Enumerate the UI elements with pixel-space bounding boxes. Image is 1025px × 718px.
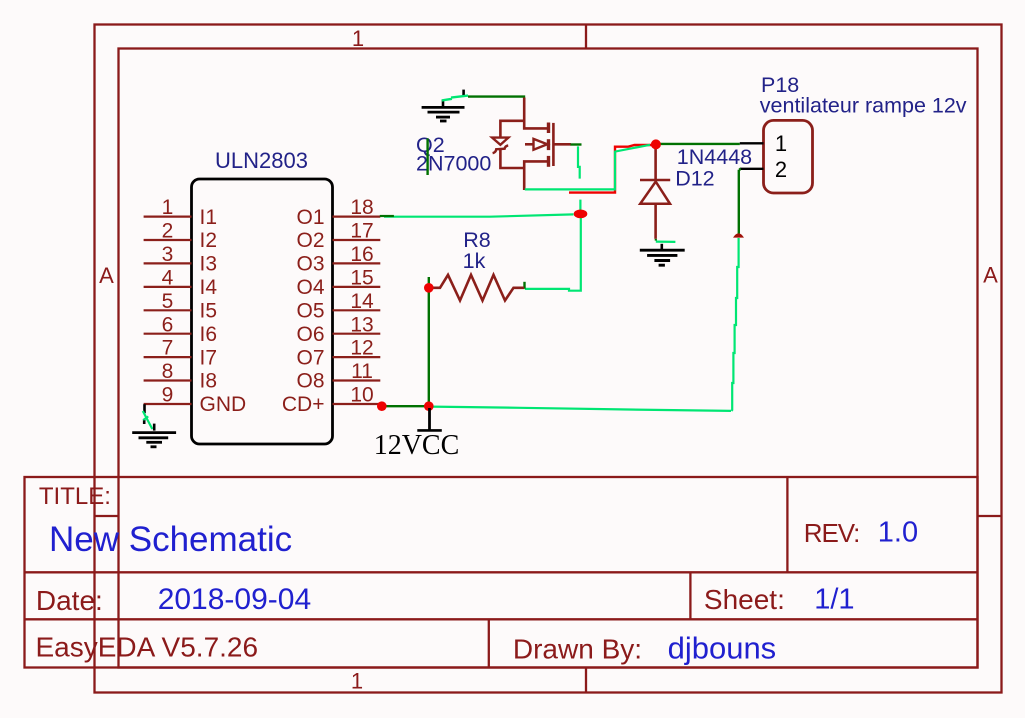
svg-text:Sheet:: Sheet: bbox=[704, 584, 785, 615]
svg-text:djbouns: djbouns bbox=[668, 631, 777, 666]
svg-text:17: 17 bbox=[350, 220, 373, 243]
svg-text:1/1: 1/1 bbox=[814, 584, 854, 616]
svg-text:I8: I8 bbox=[200, 370, 218, 393]
pin 10 (CD+) of U1 bbox=[282, 384, 380, 417]
wire P18 pin2 down bbox=[739, 169, 741, 233]
wire gate dangle bbox=[578, 146, 580, 178]
svg-text:1N4448: 1N4448 bbox=[677, 145, 752, 169]
svg-text:GND: GND bbox=[200, 393, 247, 416]
power flag 12VCC bbox=[374, 408, 460, 461]
ground GND1 (top, gate) bbox=[422, 90, 465, 121]
pin 13 (O6) of U1 bbox=[296, 313, 380, 346]
net marker dome bbox=[733, 233, 744, 237]
title block REV separator bbox=[786, 477, 788, 572]
svg-text:18: 18 bbox=[350, 196, 373, 219]
resistor R8 bbox=[429, 275, 524, 301]
svg-text:D12: D12 bbox=[675, 167, 714, 191]
pin 17 (O2) of U1 bbox=[296, 220, 380, 253]
pin 3 (I3) of U1 bbox=[144, 243, 217, 276]
svg-text:New Schematic: New Schematic bbox=[49, 520, 292, 559]
svg-text:O6: O6 bbox=[296, 323, 324, 346]
svg-text:CD+: CD+ bbox=[282, 393, 325, 416]
svg-text:3: 3 bbox=[162, 243, 174, 266]
svg-text:I2: I2 bbox=[200, 229, 218, 252]
svg-text:9: 9 bbox=[162, 384, 174, 407]
title block outline bbox=[25, 477, 978, 668]
svg-text:ULN2803: ULN2803 bbox=[215, 148, 308, 173]
svg-text:Drawn By:: Drawn By: bbox=[513, 634, 642, 665]
pin 7 (I7) of U1 bbox=[144, 337, 217, 370]
junction node dot (D12/P18) bbox=[651, 139, 661, 149]
svg-text:1: 1 bbox=[352, 26, 364, 51]
pin 1 of P18 bbox=[740, 131, 787, 156]
frame zone tick left bbox=[95, 515, 119, 517]
svg-text:12VCC: 12VCC bbox=[374, 430, 460, 461]
wire 12VCC rail right bbox=[431, 407, 731, 411]
pin 6 (I6) of U1 bbox=[144, 313, 217, 346]
wire stub (floating, over Q2 label) bbox=[426, 138, 428, 175]
pin 5 (I5) of U1 bbox=[144, 290, 217, 323]
wire D12 to ground bbox=[655, 239, 657, 241]
svg-text:I4: I4 bbox=[200, 276, 218, 299]
svg-text:2: 2 bbox=[775, 157, 787, 182]
svg-text:16: 16 bbox=[350, 243, 373, 266]
svg-text:5: 5 bbox=[162, 290, 174, 313]
diode D12 1N4448 bbox=[640, 149, 670, 239]
svg-text:O8: O8 bbox=[296, 370, 324, 393]
svg-text:1: 1 bbox=[162, 196, 174, 219]
wire gate ground diagonal bbox=[442, 96, 468, 101]
svg-text:I5: I5 bbox=[200, 300, 218, 323]
svg-text:REV:: REV: bbox=[804, 518, 860, 548]
pin 14 (O5) of U1 bbox=[296, 290, 380, 323]
pin 2 (I2) of U1 bbox=[144, 220, 217, 253]
svg-text:2018-09-04: 2018-09-04 bbox=[158, 583, 311, 616]
wire P18 pin2 to 12V rail bbox=[731, 238, 738, 411]
wire source bottom bbox=[525, 145, 650, 190]
wire O1 (pin18) to node bbox=[384, 214, 574, 216]
wire R8 right pin tick bbox=[523, 282, 525, 289]
svg-text:I1: I1 bbox=[200, 206, 218, 229]
wire red source-to-node bbox=[569, 145, 653, 193]
svg-text:TITLE:: TITLE: bbox=[39, 483, 111, 510]
wire node stub up bbox=[579, 200, 581, 210]
svg-text:4: 4 bbox=[162, 267, 174, 290]
svg-text:O3: O3 bbox=[296, 253, 324, 276]
junction dot pin10 bbox=[377, 401, 387, 411]
svg-text:ventilateur rampe 12v: ventilateur rampe 12v bbox=[760, 94, 967, 118]
svg-text:A: A bbox=[99, 263, 114, 288]
svg-text:I7: I7 bbox=[200, 346, 218, 369]
frame zone tick bottom bbox=[585, 668, 587, 693]
title block row divider 1 bbox=[25, 571, 978, 573]
svg-text:A: A bbox=[983, 263, 998, 288]
svg-text:2: 2 bbox=[162, 220, 174, 243]
title block row divider 2 bbox=[25, 618, 978, 620]
svg-text:12: 12 bbox=[350, 337, 373, 360]
junction node dot (O1/R8) bbox=[574, 210, 588, 219]
wire node to P18 pin1 bbox=[658, 143, 740, 145]
transistor Q2 2N7000 bbox=[492, 98, 571, 191]
svg-text:15: 15 bbox=[350, 267, 373, 290]
ground GND2 (under D12) bbox=[640, 244, 685, 265]
ground GND3 (pin 9) bbox=[132, 424, 176, 447]
pin9 GND black tick bbox=[143, 404, 146, 424]
title block Sheet separator bbox=[689, 572, 691, 619]
svg-text:O5: O5 bbox=[296, 300, 324, 323]
svg-text:1: 1 bbox=[351, 669, 363, 694]
frame inner border bbox=[119, 49, 978, 668]
pin 8 (I8) of U1 bbox=[144, 360, 217, 393]
wire O1 dark stub bbox=[380, 215, 394, 217]
svg-text:14: 14 bbox=[350, 290, 374, 313]
pin 11 (O8) of U1 bbox=[296, 360, 380, 393]
svg-text:EasyEDA V5.7.26: EasyEDA V5.7.26 bbox=[36, 632, 259, 663]
svg-text:11: 11 bbox=[351, 360, 373, 383]
svg-text:Date:: Date: bbox=[36, 585, 103, 616]
IC U? ULN2803 body bbox=[192, 179, 333, 444]
pin 18 (O1) of U1 bbox=[296, 196, 380, 229]
wire gnd to Q2 drain top bbox=[468, 95, 525, 97]
connector P18 body bbox=[764, 120, 813, 193]
title block DrawnBy separator bbox=[488, 619, 490, 667]
svg-text:7: 7 bbox=[162, 337, 174, 360]
pin 2 of P18 bbox=[740, 157, 787, 182]
svg-text:6: 6 bbox=[162, 313, 174, 336]
pin 12 (O7) of U1 bbox=[296, 337, 380, 370]
svg-text:O4: O4 bbox=[296, 276, 324, 299]
svg-text:1k: 1k bbox=[463, 249, 486, 273]
svg-text:10: 10 bbox=[350, 384, 373, 407]
svg-text:1.0: 1.0 bbox=[878, 517, 918, 549]
svg-text:1: 1 bbox=[775, 131, 787, 156]
wire CD+ pin10 to 12VCC bbox=[382, 405, 429, 407]
frame zone tick right bbox=[978, 515, 1002, 517]
svg-text:O2: O2 bbox=[296, 229, 324, 252]
wire node down to R8 bbox=[525, 214, 581, 291]
svg-text:O7: O7 bbox=[296, 346, 324, 369]
wire gate lead green bbox=[571, 143, 582, 145]
wire R8 left to 12V rail bbox=[428, 277, 430, 406]
svg-text:8: 8 bbox=[162, 360, 174, 383]
junction dot R8 left bbox=[424, 283, 434, 293]
pin 1 (I1) of U1 bbox=[144, 196, 217, 229]
wire pin9 to ground diagonal bbox=[143, 411, 153, 429]
svg-text:I3: I3 bbox=[200, 253, 218, 276]
pin 16 (O3) of U1 bbox=[296, 243, 380, 276]
pin 9 (GND) of U1 bbox=[144, 384, 247, 417]
frame zone tick top bbox=[585, 25, 587, 49]
svg-text:I6: I6 bbox=[200, 323, 218, 346]
junction dot 12VCC bbox=[424, 401, 434, 411]
svg-text:O1: O1 bbox=[296, 206, 324, 229]
pin 4 (I4) of U1 bbox=[144, 267, 218, 300]
pin 15 (O4) of U1 bbox=[296, 267, 380, 300]
svg-text:13: 13 bbox=[350, 313, 373, 336]
